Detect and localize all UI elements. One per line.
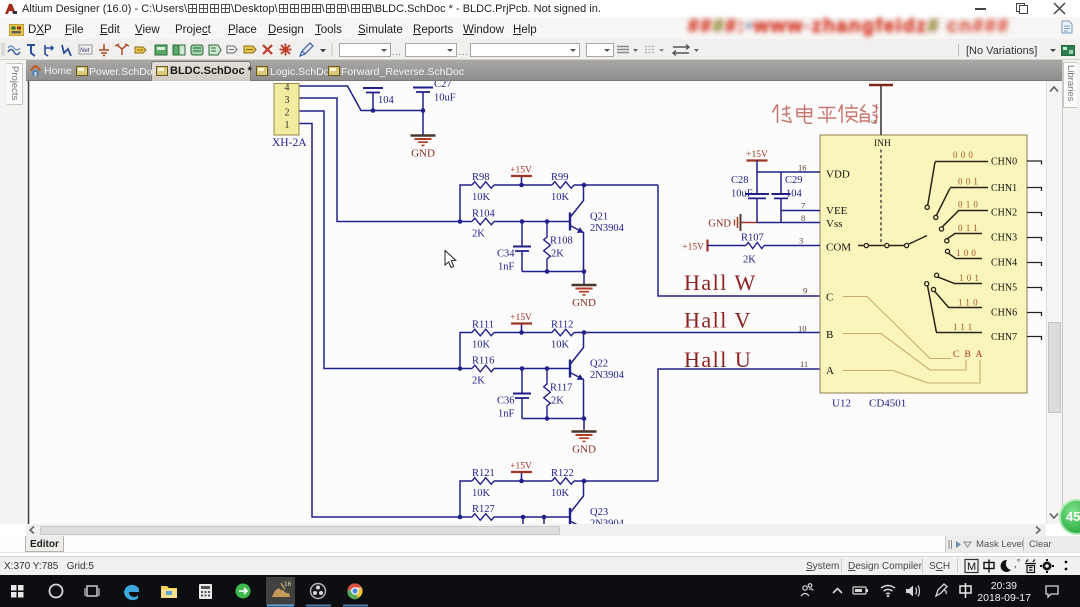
mouse cursor	[445, 251, 456, 268]
doc icon top right	[1061, 20, 1073, 34]
wire VEE pin 7	[781, 210, 820, 212]
svg-text:C34: C34	[497, 249, 515, 260]
jian	[1025, 560, 1036, 573]
svg-text:10K: 10K	[472, 488, 491, 499]
pen	[936, 584, 947, 596]
junction dots	[371, 108, 587, 519]
svg-text:R99: R99	[551, 172, 569, 183]
svg-text:R112: R112	[551, 320, 573, 331]
svg-text:Net: Net	[80, 48, 90, 54]
edge	[124, 585, 139, 600]
svg-text:11: 11	[800, 359, 808, 369]
wire INH dashed	[880, 150, 882, 246]
ground GND c2	[572, 432, 597, 456]
obs	[311, 584, 326, 599]
svg-text:010: 010	[958, 200, 981, 210]
wire Q23 collector to Hall U to pin11	[658, 369, 820, 481]
svg-text:R111: R111	[472, 320, 494, 331]
svg-text:C27: C27	[434, 81, 452, 90]
svg-text:104: 104	[378, 95, 395, 106]
zhong	[984, 560, 994, 573]
folder	[161, 586, 177, 598]
svg-text:3: 3	[799, 236, 803, 246]
svg-text:R116: R116	[472, 356, 494, 367]
svg-text:10K: 10K	[472, 340, 491, 351]
wire Q21 emitter to GND	[583, 272, 585, 286]
svg-text:R107: R107	[741, 233, 764, 244]
resistor R108	[544, 222, 573, 272]
task view	[85, 586, 99, 596]
wire pin4 net	[299, 86, 423, 111]
active tab bg	[151, 61, 251, 81]
calculator	[199, 584, 212, 599]
resistor R112	[551, 320, 574, 351]
svg-text:Q23: Q23	[590, 507, 608, 518]
svg-text:CHN3: CHN3	[991, 233, 1017, 244]
svg-text:1nF: 1nF	[498, 409, 515, 420]
power INH bar	[869, 84, 893, 87]
svg-text:GND: GND	[572, 444, 596, 456]
resistor R121	[472, 468, 495, 499]
op-amp U12 body	[820, 135, 1027, 393]
wire VDD pin 16	[757, 171, 820, 173]
svg-text:A: A	[976, 350, 983, 360]
wire stub C38	[522, 517, 524, 524]
svg-text:1nF: 1nF	[498, 262, 515, 273]
svg-text:U12: U12	[832, 398, 851, 410]
svg-text:R108: R108	[550, 236, 573, 247]
svg-text:M: M	[967, 561, 976, 573]
svg-text:2K: 2K	[743, 255, 756, 266]
svg-text:Q21: Q21	[590, 212, 608, 223]
variations	[958, 44, 959, 56]
svg-text:10uF: 10uF	[434, 93, 456, 104]
power +15V chip	[746, 150, 768, 172]
power +15V c3	[510, 462, 532, 482]
wire C36 R117 emitter rail	[522, 418, 584, 420]
sheet border	[28, 81, 30, 524]
svg-text:+15V: +15V	[510, 462, 532, 472]
wire Q22 emitter to GND	[583, 419, 585, 432]
ground GND left	[708, 214, 740, 231]
svg-text:CHN2: CHN2	[991, 208, 1017, 219]
wire COM pin 3	[708, 245, 821, 247]
svg-text:1: 1	[285, 120, 290, 131]
svg-text:7: 7	[801, 201, 805, 211]
capacitor C27	[413, 79, 456, 111]
capacitor C28	[731, 172, 769, 223]
wire C27 to GND	[422, 111, 424, 136]
speaker	[906, 586, 913, 597]
svg-text:10: 10	[798, 324, 807, 334]
svg-text:CHN5: CHN5	[991, 283, 1017, 294]
svg-text:C: C	[826, 292, 833, 304]
moon	[1001, 560, 1011, 572]
svg-text:XH-2A: XH-2A	[272, 137, 307, 149]
svg-text:C28: C28	[731, 175, 749, 186]
svg-text:GND: GND	[411, 148, 435, 160]
pin names CHN0-CHN7	[991, 157, 1017, 344]
wire Vss pin 8	[741, 222, 758, 224]
wire pin2 to R116	[299, 111, 472, 369]
wire circuit1 top rail	[460, 185, 658, 222]
tray people	[801, 584, 813, 596]
wire stub R-next	[543, 517, 545, 524]
wire select trace C	[843, 297, 951, 359]
svg-text:10K: 10K	[551, 488, 570, 499]
pin names	[826, 169, 851, 378]
power +15V c2	[510, 313, 532, 333]
transistor Q23	[570, 481, 625, 530]
resistor R111	[472, 320, 494, 351]
svg-text:2018-09-17: 2018-09-17	[977, 592, 1031, 604]
svg-text:101: 101	[959, 273, 982, 283]
svg-text:INH: INH	[874, 139, 891, 149]
wire Q22 collector to Hall V to pin10	[574, 332, 820, 334]
svg-text:000: 000	[953, 150, 976, 160]
svg-text:Hall W: Hall W	[684, 270, 757, 295]
wire channel arms	[928, 162, 988, 333]
svg-text:A: A	[826, 365, 834, 377]
node switch contacts channels	[925, 205, 950, 291]
svg-text:+15V: +15V	[510, 313, 532, 323]
svg-text:R121: R121	[472, 468, 495, 479]
svg-text:+15V: +15V	[510, 166, 532, 176]
svg-text:2: 2	[285, 108, 290, 119]
svg-text:Hall V: Hall V	[684, 308, 752, 333]
window buttons	[975, 8, 986, 10]
resistor R116	[472, 356, 494, 387]
svg-text:2K: 2K	[472, 376, 485, 387]
svg-text:CHN1: CHN1	[991, 183, 1017, 194]
wire select trace B	[843, 334, 966, 371]
wire circuit3 top rail	[460, 481, 658, 517]
node switch contacts on COM	[864, 243, 909, 247]
capacitor C29	[772, 172, 803, 223]
svg-text:3: 3	[285, 95, 290, 106]
annotation low-level-enable (CJK strokes)	[773, 104, 879, 123]
svg-text:104: 104	[786, 189, 803, 200]
svg-text:C36: C36	[497, 396, 515, 407]
colon dots	[1065, 561, 1068, 564]
svg-text:R98: R98	[472, 172, 490, 183]
svg-text:111: 111	[953, 322, 975, 332]
svg-text:R122: R122	[551, 468, 574, 479]
resistor R122	[551, 468, 574, 499]
wire INH pin 6	[880, 86, 882, 135]
wifi	[881, 586, 895, 595]
action center	[1046, 586, 1058, 597]
wire Q21 collector to Hall W to pin9	[658, 185, 820, 296]
resistor R104	[472, 209, 496, 240]
wire channel stubs right	[1027, 161, 1042, 340]
svg-text:10K: 10K	[551, 340, 570, 351]
svg-text:CHN4: CHN4	[991, 258, 1017, 269]
svg-text:CHN6: CHN6	[991, 308, 1017, 319]
svg-text:+15V: +15V	[682, 243, 704, 253]
svg-text:10uF: 10uF	[731, 189, 753, 200]
wire COM switch common	[858, 236, 927, 246]
svg-text:°: °	[1017, 558, 1020, 567]
resistor R99	[551, 172, 574, 203]
svg-text:2K: 2K	[472, 229, 485, 240]
svg-text:4: 4	[285, 83, 290, 94]
svg-text:16: 16	[284, 581, 292, 588]
wire circuit2 top rail	[460, 333, 552, 369]
binary code labels	[953, 150, 982, 332]
underlines	[267, 605, 294, 607]
svg-text:GND: GND	[708, 219, 731, 230]
wire R104 to Q21 base	[494, 221, 570, 223]
svg-text:GND: GND	[572, 297, 596, 309]
capacitor C36	[497, 369, 531, 420]
resistor R107	[741, 233, 764, 266]
wire select trace A	[843, 360, 980, 384]
cortana	[50, 585, 63, 598]
resistor R98	[472, 172, 494, 203]
gear	[1040, 559, 1054, 573]
svg-text:C: C	[953, 350, 959, 360]
altium button	[266, 577, 295, 605]
svg-text:10K: 10K	[472, 192, 491, 203]
svg-text:+15V: +15V	[746, 150, 768, 160]
svg-text:10K: 10K	[551, 192, 570, 203]
resistor R127	[472, 504, 495, 520]
zhong IME	[960, 583, 971, 598]
svg-text:VDD: VDD	[826, 169, 850, 181]
ground GND top	[411, 136, 436, 160]
wire R127 to Q23 base	[494, 516, 570, 518]
svg-text:B: B	[965, 350, 971, 360]
svg-text:CD4501: CD4501	[869, 398, 906, 410]
power +15V COM	[682, 240, 707, 253]
chevron	[833, 589, 842, 594]
connector XH-2A	[272, 83, 307, 150]
svg-text:C29: C29	[785, 175, 803, 186]
svg-text:8: 8	[801, 213, 805, 223]
svg-text:2K: 2K	[551, 249, 564, 260]
svg-text:2N3904: 2N3904	[590, 370, 625, 381]
svg-text:100: 100	[956, 248, 979, 258]
svg-text:B: B	[826, 329, 833, 341]
resistor R117	[544, 369, 573, 419]
svg-text:110: 110	[958, 298, 981, 308]
svg-text:2N3904: 2N3904	[590, 223, 625, 234]
svg-text:Vss: Vss	[826, 218, 843, 230]
transistor Q21	[570, 185, 625, 272]
svg-text:20:39: 20:39	[991, 580, 1017, 592]
svg-text:16: 16	[798, 163, 807, 173]
svg-text:Hall U: Hall U	[684, 347, 752, 372]
battery	[853, 587, 866, 594]
green app	[236, 584, 251, 599]
wire pin3 to R104	[299, 98, 472, 222]
svg-text:R104: R104	[472, 209, 496, 220]
capacitor 104	[363, 88, 395, 111]
transistor Q22	[570, 333, 625, 419]
node C B A select labels	[953, 350, 983, 360]
svg-text:CHN0: CHN0	[991, 157, 1017, 168]
svg-text:011: 011	[958, 223, 981, 233]
svg-text:CHN7: CHN7	[991, 332, 1017, 343]
svg-text:Q22: Q22	[590, 359, 608, 370]
svg-text:2K: 2K	[551, 396, 564, 407]
ground GND c1	[572, 285, 597, 309]
svg-text:001: 001	[958, 177, 981, 187]
wire C34 R108 emitter rail	[522, 271, 584, 273]
svg-text:COM: COM	[826, 242, 851, 254]
svg-text:9: 9	[803, 286, 807, 296]
svg-text:R117: R117	[550, 383, 572, 394]
power +15V c1	[510, 166, 532, 186]
start	[11, 585, 24, 598]
wire pin1 to R127	[299, 124, 472, 518]
capacitor C34	[497, 222, 531, 273]
chrome	[348, 584, 363, 599]
svg-text:R127: R127	[472, 504, 495, 515]
svg-text:VEE: VEE	[826, 205, 848, 217]
wire R116 to Q22 base	[494, 368, 570, 370]
